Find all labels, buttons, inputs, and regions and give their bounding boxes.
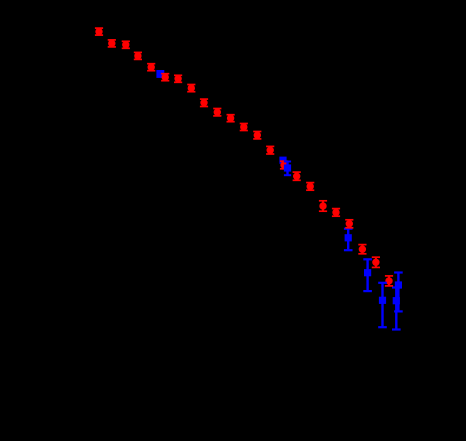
red data point R1 (open circle with error bar): [95, 28, 103, 35]
red data point R4 (open circle with error bar): [134, 52, 142, 59]
red data point R5 (open circle with error bar): [147, 64, 155, 71]
blue data point B8 (filled square with error bar): [392, 288, 401, 330]
blue data point B7 (filled square with error bar): [394, 273, 403, 312]
red data point R13 (open circle with error bar): [253, 132, 261, 139]
red data point R16 (open circle with error bar): [293, 172, 301, 180]
red data point R7 (open circle with error bar): [174, 75, 182, 82]
red data point R15 (open circle with error bar): [280, 161, 288, 169]
red data point R12 (open circle with error bar): [240, 124, 248, 131]
red data point R2 (open circle with error bar): [108, 40, 116, 47]
red data point R14 (open circle with error bar): [266, 146, 274, 154]
red data point R3 (open circle with error bar): [122, 41, 130, 48]
blue data point B5 (filled square with error bar): [363, 259, 372, 291]
blue data point B4 (filled square with error bar): [344, 229, 353, 251]
red data point R10 (open circle with error bar): [213, 109, 221, 116]
red data point R21 (open circle with error bar): [358, 245, 366, 254]
red data point R8 (open circle with error bar): [187, 85, 195, 92]
red data point R11 (open circle with error bar): [227, 115, 235, 122]
red data point R22 (open circle with error bar): [372, 257, 380, 267]
red data point R20 (open circle with error bar): [345, 220, 353, 228]
red data point R18 (open circle with error bar): [319, 201, 327, 211]
blue data point B6 (filled square with error bar): [378, 283, 387, 327]
blue data point B1 (filled square): [156, 70, 164, 78]
red data point R19 (open circle with error bar): [332, 209, 340, 217]
red data point R6 (open circle with error bar): [161, 74, 169, 81]
red data point R9 (open circle with error bar): [200, 99, 208, 106]
blue data point B3 (filled square with error bar): [284, 162, 291, 176]
red data point R23 (open circle with error bar): [385, 276, 393, 286]
blue data point B2 (filled square): [279, 157, 286, 164]
red data point R17 (open circle with error bar): [306, 183, 314, 191]
